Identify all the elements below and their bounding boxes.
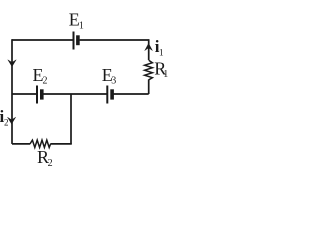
svg-text:3: 3: [111, 76, 116, 87]
svg-text:2: 2: [43, 75, 48, 86]
svg-text:2: 2: [48, 158, 53, 169]
svg-text:1: 1: [79, 21, 84, 32]
svg-text:1: 1: [159, 49, 164, 59]
svg-text:2: 2: [4, 117, 9, 127]
svg-text:1: 1: [163, 69, 168, 80]
